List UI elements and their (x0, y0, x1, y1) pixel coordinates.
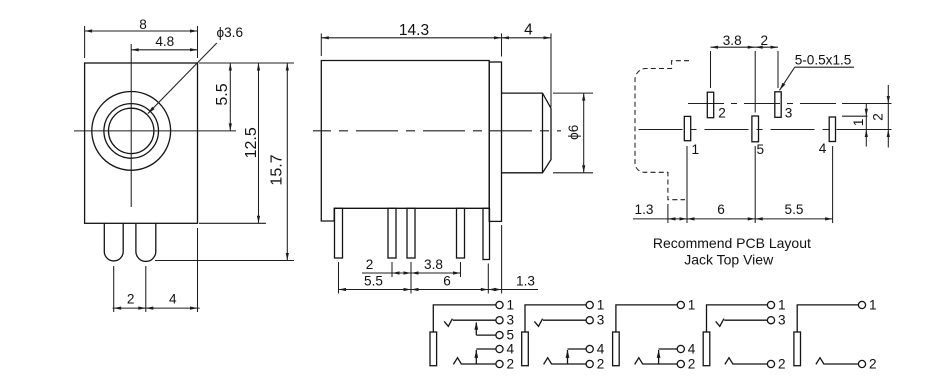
wire S2 to terminal 3 (543, 319, 586, 321)
front view left pin (104, 223, 123, 261)
svg-text:2: 2 (869, 356, 877, 371)
tip contact S4 (check) (716, 319, 724, 327)
wire S5 to terminal 2 (824, 363, 858, 365)
front view right pin (136, 223, 156, 261)
svg-text:1.3: 1.3 (635, 202, 654, 217)
dimension 1 right (851, 104, 868, 147)
dimension 15.7 vertical (269, 63, 289, 261)
hole circle phi3.6 (109, 108, 154, 153)
svg-text:1: 1 (688, 297, 696, 312)
pad 3 (775, 92, 781, 118)
svg-text:3: 3 (778, 313, 786, 328)
extension line box bottom right (199, 222, 266, 224)
dimension 2 pcb (755, 33, 778, 88)
svg-text:2: 2 (597, 356, 605, 371)
svg-text:1: 1 (597, 297, 605, 312)
svg-text:5: 5 (507, 327, 515, 342)
svg-text:4: 4 (507, 341, 515, 356)
ring contact S3 (peak) (635, 358, 643, 365)
tip contact S2 (check) (534, 319, 542, 327)
svg-text:2: 2 (871, 113, 886, 121)
ring contact S1 (peak) (453, 358, 461, 365)
front view jack body (85, 63, 198, 223)
terminal 2 S3 (677, 360, 684, 367)
switch link 2-4 with arrow S3 (658, 350, 660, 364)
dimension 3.8 pcb (711, 33, 756, 113)
terminal 4 S1 (496, 345, 503, 352)
switch link 2-4 with arrow S2 (567, 350, 569, 364)
terminal 2 S4 (767, 360, 774, 367)
jack sleeve bar S4 (703, 332, 710, 366)
svg-text:3.8: 3.8 (424, 257, 443, 272)
side pin A (335, 208, 343, 258)
pcb lower centerline (639, 129, 892, 131)
pcb upper centerline (688, 103, 892, 105)
svg-text:4: 4 (688, 341, 696, 356)
wire S5 to terminal 1 (797, 305, 858, 332)
dimension 5.5 vertical (214, 63, 232, 131)
side pin E (483, 208, 490, 259)
jack sleeve bar S3 (613, 332, 620, 366)
wire S3 to terminal 4 (659, 348, 678, 350)
svg-text:2: 2 (718, 106, 726, 121)
wire S4 to terminal 2 (733, 363, 767, 365)
svg-text:5.5: 5.5 (785, 202, 804, 217)
hole callout 5-0.5x1.5 (780, 53, 855, 91)
svg-text:1: 1 (851, 119, 866, 127)
dimension 12.5 vertical (243, 63, 260, 223)
terminal 3 S1 (496, 317, 503, 324)
svg-text:3: 3 (507, 313, 515, 328)
svg-text:15.7: 15.7 (269, 154, 286, 185)
mounting plate (489, 62, 501, 221)
svg-text:12.5: 12.5 (243, 127, 260, 158)
wire S1 to terminal 2 (462, 363, 496, 365)
wire S2 to terminal 4 (568, 348, 587, 350)
svg-text:1.3: 1.3 (516, 274, 535, 289)
vertical centerline (130, 44, 132, 207)
terminal 5 S1 (496, 332, 503, 339)
terminal 1 S2 (586, 301, 593, 308)
svg-text:2: 2 (366, 257, 374, 272)
terminal 2 S5 (858, 360, 865, 367)
label phi3.6 with leader (148, 25, 243, 114)
dimension 2 and 3.8 side (362, 257, 461, 275)
terminal 4 S2 (586, 345, 593, 352)
wire S1 to terminal 4 (476, 348, 496, 350)
terminal 2 S1 (496, 360, 503, 367)
side view body (321, 61, 489, 222)
tip contact S1 (check) (444, 319, 452, 327)
dimension 4 top (502, 21, 552, 107)
jack sleeve bar S5 (794, 332, 801, 366)
svg-text:1: 1 (778, 297, 786, 312)
wire S1 to terminal 3 (453, 319, 496, 321)
svg-text:14.3: 14.3 (399, 22, 429, 39)
svg-text:1: 1 (869, 297, 877, 312)
dimension 8 (85, 17, 198, 58)
svg-text:3: 3 (597, 313, 605, 328)
svg-text:1: 1 (507, 297, 515, 312)
dimension 2 right (871, 85, 890, 148)
svg-text:5.5: 5.5 (214, 83, 231, 105)
extension lines bottom pins (113, 266, 115, 312)
switch link 3-5 with arrow S1 (475, 323, 477, 336)
svg-text:2: 2 (688, 356, 696, 371)
side pin D (457, 208, 465, 258)
pad 1 (684, 116, 690, 140)
hole chamfer circle (104, 104, 159, 159)
svg-text:2: 2 (778, 356, 786, 371)
dimension 5.5 6 1.3 side (339, 274, 539, 292)
extension line pin bottom right (155, 260, 294, 262)
svg-text:4: 4 (169, 292, 177, 307)
jack sleeve bar S1 (430, 332, 437, 366)
pad 5 (752, 116, 759, 142)
wire S4 to terminal 1 (707, 305, 768, 332)
right extension upper row (842, 103, 892, 105)
wire S1 to terminal 1 (433, 305, 496, 332)
pad 4 (829, 117, 835, 142)
svg-text:2: 2 (761, 33, 769, 48)
terminal 1 S3 (677, 301, 684, 308)
extension lines side bottom (338, 262, 340, 294)
svg-text:2: 2 (507, 356, 515, 371)
extension line box top right (199, 62, 294, 64)
terminal 4 S3 (677, 345, 684, 352)
wire S2 to terminal 2 (552, 363, 586, 365)
side view centerline (313, 130, 561, 132)
pad 2 (707, 92, 713, 118)
ring contact S5 (peak) (816, 358, 824, 365)
terminal 3 S2 (586, 317, 593, 324)
svg-text:4.8: 4.8 (155, 34, 174, 49)
svg-text:4: 4 (524, 21, 533, 38)
pcb body dashed outline (635, 61, 689, 200)
svg-text:Jack Top View: Jack Top View (684, 252, 774, 268)
terminal 1 S1 (496, 301, 503, 308)
pcb bottom extension lines (667, 204, 669, 223)
boss outer circle (92, 91, 171, 170)
svg-text:3.8: 3.8 (723, 33, 742, 48)
side pin C (407, 208, 415, 258)
svg-text:5-0.5x1.5: 5-0.5x1.5 (795, 53, 852, 68)
jack sleeve bar S2 (522, 332, 529, 366)
svg-text:4: 4 (819, 141, 827, 156)
dimension phi6 (553, 93, 593, 173)
terminal 2 S2 (586, 360, 593, 367)
dimension 14.3 (321, 22, 501, 57)
dimension 2 and 4 bottom (113, 292, 200, 310)
wire S1 to terminal 5 (476, 334, 496, 336)
wire S3 to terminal 1 (616, 305, 677, 332)
switch link 2-4 with arrow S1 (475, 350, 477, 364)
wire S2 to terminal 1 (525, 305, 586, 332)
threaded bushing (502, 93, 552, 173)
horizontal centerline (74, 130, 236, 132)
svg-text:8: 8 (139, 17, 147, 32)
ring contact S4 (peak) (725, 358, 733, 365)
svg-text:2: 2 (127, 292, 135, 307)
svg-text:ϕ3.6: ϕ3.6 (217, 25, 244, 40)
dimension 4.8 (131, 34, 197, 51)
svg-text:3: 3 (785, 106, 793, 121)
bushing chamfer edge (542, 93, 544, 173)
svg-text:5: 5 (757, 142, 765, 157)
svg-text:6: 6 (443, 274, 451, 289)
svg-text:5.5: 5.5 (364, 274, 383, 289)
ring contact S2 (peak) (544, 358, 552, 365)
pcb right extension pad4 top (842, 115, 868, 117)
wire S3 to terminal 2 (643, 363, 677, 365)
terminal 1 S5 (858, 301, 865, 308)
svg-text:6: 6 (717, 202, 725, 217)
side pin B (388, 208, 396, 258)
svg-text:1: 1 (692, 142, 700, 157)
svg-text:Recommend PCB Layout: Recommend PCB Layout (653, 235, 811, 251)
svg-text:4: 4 (597, 341, 605, 356)
terminal 1 S4 (767, 301, 774, 308)
wire S4 to terminal 3 (724, 319, 767, 321)
right extension lower row (843, 129, 892, 131)
dimension 1.3 6 5.5 pcb (633, 202, 833, 221)
svg-text:ϕ6: ϕ6 (566, 125, 581, 140)
terminal 3 S4 (767, 317, 774, 324)
